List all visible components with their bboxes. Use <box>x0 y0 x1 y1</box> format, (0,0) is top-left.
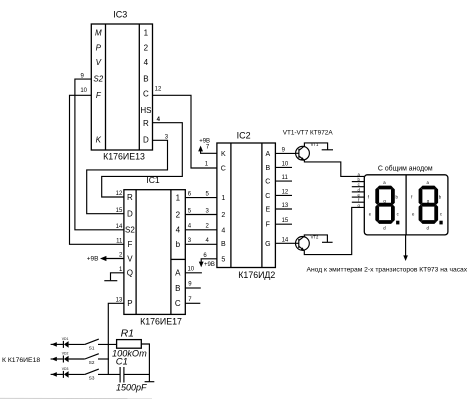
transistor VT2 <box>296 237 310 251</box>
svg-text:10: 10 <box>187 266 194 272</box>
svg-text:V: V <box>96 58 102 67</box>
wire diode to switch S1 <box>69 343 85 345</box>
display pin stub e <box>352 196 365 198</box>
display pin stub b <box>352 181 365 183</box>
IC1 left pin numbers 12 15 14 11 2 1 13 <box>116 191 123 303</box>
wire row 1: IC1 pin6 to IC2 pin5 <box>185 197 217 199</box>
svg-text:4: 4 <box>221 227 225 234</box>
wire net P: IC1 pin13 P down to RC node <box>108 303 124 374</box>
svg-text:HS: HS <box>140 106 151 115</box>
wire VT2 collector <box>299 235 328 242</box>
svg-text:12: 12 <box>116 191 123 197</box>
wire C1 right plate to ground node <box>124 373 149 375</box>
svg-text:C: C <box>143 90 149 99</box>
svg-text:S2: S2 <box>89 360 95 365</box>
svg-text:K: K <box>96 136 102 145</box>
svg-text:B: B <box>265 165 270 172</box>
svg-text:S1: S1 <box>89 345 95 350</box>
wire stub IC2 pin F <box>275 223 292 225</box>
7seg digit HG2 segment labels <box>411 180 443 230</box>
svg-text:5: 5 <box>221 256 225 263</box>
svg-text:IC2: IC2 <box>237 130 251 140</box>
svg-text:11: 11 <box>116 239 123 245</box>
svg-text:К176ИЕ17: К176ИЕ17 <box>140 316 182 326</box>
wire stub IC2 pin C2 <box>275 194 292 196</box>
svg-text:F: F <box>127 240 132 249</box>
svg-text:D: D <box>127 210 133 219</box>
svg-text:2: 2 <box>176 210 181 219</box>
wire VT1 emitter to display pin a <box>299 156 364 176</box>
svg-text:VD3: VD3 <box>62 367 69 371</box>
wire net S2: IC3 pin9 S2 to IC1 pin14 S2 <box>75 79 124 230</box>
IC2 left pin letters K C 1 2 4 B 5 <box>221 151 226 263</box>
wire net F: IC3 pin10 F to IC1 pin11 F <box>70 95 124 244</box>
svg-text:VD2: VD2 <box>62 351 69 355</box>
terminal bar at VT2 collector <box>322 241 333 243</box>
display pin stub f <box>352 201 365 203</box>
op IC1 body К176ИЕ17 <box>124 190 185 315</box>
svg-text:M: M <box>95 29 102 38</box>
svg-text:10: 10 <box>282 161 289 167</box>
svg-text:C: C <box>175 299 181 308</box>
7seg digit HG1 segment labels <box>368 180 400 230</box>
svg-text:13: 13 <box>116 298 123 304</box>
node arrow to K176IE18 row 1 <box>51 342 57 347</box>
svg-text:A: A <box>265 151 270 158</box>
wire stub IC2 pin C <box>275 180 292 182</box>
svg-text:S3: S3 <box>89 375 95 380</box>
wire VT2 emitter to display pin g <box>299 207 365 254</box>
wire switch S2 to node <box>98 358 109 360</box>
svg-text:К176ИЕ13: К176ИЕ13 <box>103 151 145 161</box>
wire stub IC1 pin10 A <box>185 272 202 274</box>
switch S1 <box>85 339 99 350</box>
svg-text:S2: S2 <box>93 75 103 84</box>
svg-text:P: P <box>96 44 102 53</box>
svg-text:14: 14 <box>282 237 289 243</box>
wire stub IC2 pin B <box>275 166 292 168</box>
IC1 left pin letters R D S2 F V Q P <box>125 193 135 308</box>
power +9V arrow at IC2 pin7 K <box>198 139 217 154</box>
display pin stub c <box>352 186 365 188</box>
wire stub IC1 pin7 C <box>185 302 200 304</box>
svg-text:G: G <box>265 241 270 248</box>
terminal bar at VT1 collector <box>322 149 333 151</box>
svg-text:VD1: VD1 <box>62 337 69 341</box>
wire R1 right to ground bar <box>141 344 149 381</box>
wire row 4: IC1 pin4 to IC2 pin2 <box>185 229 217 231</box>
wire stub IC2 pin E <box>275 208 292 210</box>
resistor R1 <box>117 340 142 349</box>
svg-text:V: V <box>127 254 133 263</box>
wire switch S3 to node <box>98 373 120 375</box>
wire row b: IC1 pin3 to IC2 pin4 <box>185 243 217 245</box>
svg-text:E: E <box>265 207 270 214</box>
wire net D: IC3 pin3 D to IC1 pin15 D <box>87 140 168 213</box>
svg-text:+9В: +9В <box>199 139 210 145</box>
svg-text:Анод к эмиттерам 2-х транзисто: Анод к эмиттерам 2-х транзисторов КТ973 … <box>307 266 468 273</box>
svg-text:Q: Q <box>127 269 133 278</box>
svg-text:b: b <box>176 240 181 249</box>
svg-text:VT1-VT7 КТ972А: VT1-VT7 КТ972А <box>283 129 334 136</box>
node arrow to K176IE18 row 3 <box>51 372 57 377</box>
7seg digit HG2 <box>419 186 443 225</box>
op IC2 body К176ИД2 <box>217 143 276 268</box>
diode VD2 <box>57 351 69 362</box>
svg-text:VT2: VT2 <box>311 234 319 239</box>
wire net C: IC3 pin12 C to IC2 pin1 C <box>153 95 217 168</box>
svg-text:S2: S2 <box>125 226 135 235</box>
svg-text:С общим анодом: С общим анодом <box>378 165 433 173</box>
svg-text:C: C <box>265 179 270 186</box>
svg-text:1500pF: 1500pF <box>116 382 147 392</box>
svg-text:B: B <box>221 241 226 248</box>
svg-text:D: D <box>143 136 149 145</box>
svg-text:15: 15 <box>116 208 123 214</box>
diode VD3 <box>57 367 69 378</box>
IC2 right pin numbers 9 10 11 12 13 15 14 <box>282 147 289 243</box>
svg-text:+9В: +9В <box>204 262 215 268</box>
IC3 right pin letters 1 2 4 B C HS R D <box>140 29 151 145</box>
svg-text:P: P <box>127 299 132 308</box>
arrow common anode down from display <box>403 235 408 261</box>
wire VT2 base from IC2 pin14 G <box>275 242 295 244</box>
display pin labels a-g <box>358 172 361 208</box>
display pin stub d <box>352 191 365 193</box>
transistor VT1 <box>296 146 310 160</box>
svg-text:10: 10 <box>80 88 87 94</box>
svg-text:F: F <box>266 222 270 229</box>
svg-text:1: 1 <box>144 29 149 38</box>
wire switch S1 to node <box>98 343 117 345</box>
pin numbers on row wires IC2 side 5 3 2 4 <box>206 191 210 244</box>
svg-text:2: 2 <box>144 44 149 53</box>
svg-text:14: 14 <box>116 224 123 230</box>
svg-text:1: 1 <box>176 193 181 202</box>
power +9V arrow at IC2 pin6 5 <box>199 259 217 268</box>
scan artifact faint line <box>0 397 152 399</box>
svg-text:2: 2 <box>221 212 225 219</box>
svg-text:+9В: +9В <box>87 255 99 262</box>
switch S2 <box>85 354 99 365</box>
svg-text:4: 4 <box>176 226 181 235</box>
svg-text:C1: C1 <box>116 357 128 368</box>
IC1 right pin letters 1 2 4 b A B C <box>175 193 181 308</box>
svg-text:12: 12 <box>282 189 289 195</box>
svg-text:11: 11 <box>282 175 289 181</box>
node arrow to K176IE18 row 2 <box>51 357 57 362</box>
svg-text:1: 1 <box>221 195 225 202</box>
svg-text:15: 15 <box>282 218 289 224</box>
wire stub IC1 pin9 B <box>185 287 201 289</box>
svg-text:B: B <box>143 75 148 84</box>
svg-text:B: B <box>175 284 180 293</box>
wire net R: IC3 pin4 R to IC1 pin12 R <box>102 123 183 197</box>
ground bar at R1/C1 <box>145 381 155 383</box>
capacitor C1 <box>120 367 124 383</box>
svg-text:12: 12 <box>155 86 162 92</box>
wire VT1 collector <box>299 143 328 151</box>
diode VD1 <box>57 337 69 348</box>
svg-text:К К176ИЕ18: К К176ИЕ18 <box>2 357 40 364</box>
display HG body <box>364 175 448 235</box>
svg-text:A: A <box>175 269 181 278</box>
svg-text:R: R <box>127 193 133 202</box>
wire row 2: IC1 pin5 to IC2 pin3 <box>185 214 217 216</box>
ground at IC1 pin1 Q <box>104 273 124 281</box>
wire VT1 base from IC2 pin9 A <box>275 152 295 154</box>
op IC3 body К176ИЕ13 <box>91 24 152 150</box>
7seg digit HG1 <box>375 186 399 225</box>
wire diode to switch S3 <box>69 373 85 375</box>
svg-text:4: 4 <box>144 58 149 67</box>
svg-text:IC3: IC3 <box>113 10 127 20</box>
svg-text:C: C <box>265 193 270 200</box>
svg-text:К176ИД2: К176ИД2 <box>238 270 275 280</box>
svg-text:C: C <box>221 166 226 173</box>
switch S3 <box>85 369 99 380</box>
IC2 right pin letters A B C C E F G <box>265 151 270 248</box>
wire diode to switch S2 <box>69 358 85 360</box>
svg-text:R1: R1 <box>121 327 134 339</box>
power +9V arrow at IC1 pin2 V <box>87 255 124 262</box>
svg-text:K: K <box>221 151 226 158</box>
svg-text:VT1: VT1 <box>311 142 319 147</box>
IC3 left pin letters M P V S2 F K <box>93 29 103 145</box>
pin numbers on row wires IC1 side 6 5 4 3 <box>188 191 192 244</box>
svg-text:R: R <box>143 119 149 128</box>
svg-text:13: 13 <box>282 203 289 209</box>
